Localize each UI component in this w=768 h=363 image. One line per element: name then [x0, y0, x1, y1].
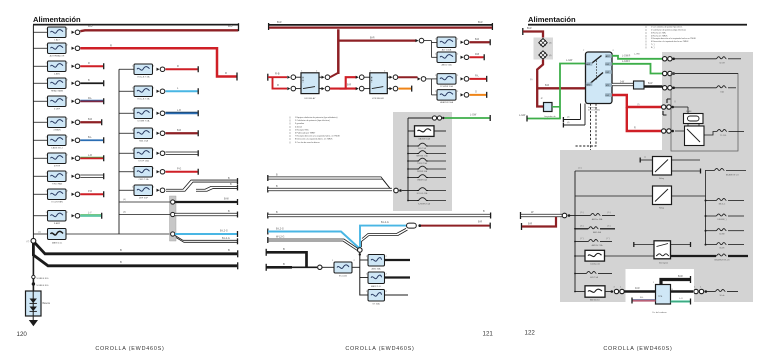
- svg-text:( ): ( ): [289, 136, 291, 138]
- fuse H p121 bottom: [360, 277, 368, 279]
- wire blue up to oval connector: [360, 226, 406, 249]
- svg-text:122: 122: [525, 330, 536, 337]
- panel row green out: [408, 117, 432, 119]
- svg-text:AM Washer: AM Washer: [590, 299, 600, 302]
- fuse F2-7 p120 column2: [119, 189, 134, 191]
- connector p120 row6: [72, 121, 75, 124]
- canister component p122: [656, 285, 671, 305]
- svg-text:(7): (7): [637, 104, 640, 106]
- connector A out: [461, 41, 464, 44]
- svg-text:B-R: B-R: [475, 38, 479, 41]
- bus black top p121: [269, 24, 492, 26]
- fuse F2-3 p120 column2: [119, 112, 134, 114]
- svg-text:( ): ( ): [289, 117, 291, 119]
- svg-text:4 diesel: 4 diesel: [295, 126, 302, 128]
- connector p120 row11: [72, 214, 75, 217]
- wire R-B feed relay1: [267, 74, 269, 81]
- wire stub L-R row8: [80, 157, 103, 159]
- fuse link right col y200.5: [705, 200, 707, 202]
- svg-text:Batería: Batería: [43, 302, 51, 305]
- svg-text:Relay: Relay: [659, 178, 664, 180]
- connector p120 col2 row7: [157, 189, 160, 192]
- fuse F2-5 p120 column2: [119, 152, 134, 154]
- connector p120 col2 row1: [157, 68, 160, 71]
- title underline p122: [528, 24, 747, 26]
- junction block J1 p120: [170, 196, 177, 241]
- connector red row2: [662, 129, 666, 133]
- wire stub col2 row2: [166, 90, 198, 92]
- svg-text:L-GW: L-GW: [634, 54, 641, 56]
- svg-text:B-R: B-R: [527, 26, 532, 30]
- svg-text:7.5 CIG: 7.5 CIG: [720, 135, 727, 137]
- wire B-R out right: [421, 225, 490, 227]
- wire orange stub relay2: [399, 88, 412, 90]
- svg-text:4 Hecho en TMUK: 4 Hecho en TMUK: [651, 35, 668, 37]
- wire L-GW loop p122: [528, 64, 586, 119]
- svg-text:Relay: Relay: [659, 208, 664, 210]
- svg-text:ABS1 50A: ABS1 50A: [441, 64, 452, 67]
- svg-text:9 Con luz de marcha diurna: 9 Con luz de marcha diurna: [295, 142, 320, 144]
- svg-text:DEF I/UP: DEF I/UP: [139, 198, 149, 200]
- connector p120 col2 row2: [157, 90, 160, 93]
- wire diag relay1 to B-R: [330, 73, 338, 77]
- svg-text:R: R: [110, 43, 112, 47]
- svg-text:( ): ( ): [645, 44, 647, 46]
- svg-text:B-R: B-R: [370, 35, 375, 39]
- fuse F1-6 p120 left column: [33, 121, 47, 123]
- svg-text:AM2 30A: AM2 30A: [372, 267, 382, 270]
- svg-text:COROLLA (EWD460S): COROLLA (EWD460S): [345, 346, 414, 352]
- connector p120 row8: [72, 157, 75, 160]
- wire stub B: [470, 56, 484, 58]
- fuse I p121 bottom: [360, 294, 368, 296]
- fuse link row B p122: [574, 228, 576, 230]
- wire stub col2 row3: [166, 112, 198, 114]
- svg-text:L-O: L-O: [679, 298, 683, 300]
- svg-text:COROLLA (EWD460S): COROLLA (EWD460S): [603, 346, 672, 352]
- wire B-R vertical drop p121: [337, 29, 340, 74]
- svg-text:L-GW: L-GW: [470, 114, 477, 117]
- svg-text:ALT 100A: ALT 100A: [442, 49, 452, 52]
- svg-text:MAIN 2.0L: MAIN 2.0L: [52, 242, 63, 245]
- svg-text:ECU-B 7.5A: ECU-B 7.5A: [138, 98, 150, 101]
- svg-text:B-L: B-L: [88, 136, 92, 139]
- svg-text:2 Calefactor de potencia (tip: 2 Calefactor de potencia (tipo eléctrico…: [651, 29, 686, 32]
- wire W zigzag from oval: [362, 228, 406, 238]
- svg-text:DOME 7.5A: DOME 7.5A: [138, 120, 150, 123]
- svg-text:1 Con sistema de porton fipo: 1 Con sistema de porton fipo electr.: [651, 26, 683, 29]
- svg-text:ECU-IG 15A: ECU-IG 15A: [417, 192, 428, 195]
- wire stub A: [470, 41, 490, 43]
- svg-text:6 Fabricado por TMMT: 6 Fabricado por TMMT: [295, 133, 316, 135]
- svg-text:(1): (1): [38, 232, 41, 234]
- svg-text:L-R: L-R: [88, 154, 92, 157]
- svg-text:B: B: [283, 262, 285, 266]
- svg-text:7 ( ): 7 ( ): [651, 44, 655, 46]
- svg-text:IGN 7.5A: IGN 7.5A: [590, 276, 599, 279]
- wire red IG out p122: [612, 95, 661, 107]
- svg-text:R: R: [88, 62, 90, 65]
- svg-text:( 4 ): ( 4 ): [578, 168, 582, 170]
- svg-text:R: R: [225, 71, 227, 75]
- svg-text:B8-B/W-R KIT-LG: B8-B/W-R KIT-LG: [715, 260, 731, 262]
- svg-text:P-G: P-G: [177, 168, 181, 171]
- svg-text:( 7 ): ( 7 ): [606, 238, 610, 240]
- svg-text:( ): ( ): [645, 27, 647, 29]
- svg-text:B-W: B-W: [678, 275, 683, 278]
- svg-text:ECU-B 7.5A: ECU-B 7.5A: [138, 76, 150, 79]
- svg-text:(4): (4): [567, 122, 570, 124]
- svg-text:( 5 ): ( 5 ): [580, 212, 584, 214]
- svg-text:AM-Pwr 30A: AM-Pwr 30A: [592, 218, 603, 221]
- svg-text:B-R: B-R: [228, 24, 233, 28]
- connector p120 row10: [72, 193, 75, 196]
- svg-text:( ): ( ): [645, 41, 647, 43]
- wire stub W row9: [80, 175, 103, 177]
- svg-text:7 RDI FAN: 7 RDI FAN: [52, 183, 63, 186]
- svg-text:( 6 ): ( 6 ): [580, 225, 584, 227]
- connector p120 col2 row4: [157, 132, 160, 135]
- svg-text:L-GW: L-GW: [566, 59, 573, 62]
- svg-text:MAIN 2.0L: MAIN 2.0L: [371, 285, 382, 288]
- svg-text:6 HTR: 6 HTR: [54, 166, 61, 168]
- svg-text:5 Excepto dirección a la izqu: 5 Excepto dirección a la izquierda hecho…: [651, 37, 697, 40]
- row2 wire into outline: [675, 73, 738, 75]
- panel bottom arc row: [408, 200, 417, 202]
- connector p120 row5: [72, 100, 75, 103]
- vertical junction bus p121 bottom: [359, 252, 361, 296]
- bracket C-D feed: [431, 79, 433, 95]
- wire B thick 2 p121 bottom: [265, 264, 267, 271]
- gray panel p122 upper: [662, 52, 753, 150]
- wire W pair stepped to page edge: [166, 180, 237, 189]
- svg-text:L-GW R: L-GW R: [622, 56, 631, 58]
- svg-text:9 AM2: 9 AM2: [54, 222, 61, 225]
- wire B-R into p122 panel: [521, 223, 523, 230]
- svg-text:B-R: B-R: [478, 20, 483, 24]
- svg-text:ST 30A: ST 30A: [372, 302, 380, 305]
- wavy box row F p122: [574, 291, 576, 293]
- fuse F1-10 p120 left column: [33, 193, 47, 195]
- wire bus to relay C row: [575, 170, 653, 172]
- wire B-L2-G out (blue): [175, 233, 237, 235]
- svg-text:P-B: P-B: [88, 190, 92, 193]
- svg-text:7 Excepto dirección a la izqu: 7 Excepto dirección a la izquierda fabri…: [295, 135, 341, 138]
- wire B-W up from canister: [661, 280, 690, 285]
- wire W long bus p121 bottom: [267, 213, 269, 219]
- svg-text:B-R: B-R: [88, 24, 93, 28]
- svg-text:( ): ( ): [289, 123, 291, 125]
- svg-text:B: B: [283, 247, 285, 251]
- fuse F1-7 p120 left column: [33, 139, 47, 141]
- svg-text:( 6 ): ( 6 ): [607, 225, 611, 227]
- wire battery vertical: [32, 243, 34, 291]
- fuse link row E p122: [574, 273, 576, 275]
- svg-text:B-R: B-R: [277, 20, 282, 24]
- svg-text:( ): ( ): [645, 30, 647, 32]
- svg-text:TAIL 15A: TAIL 15A: [139, 140, 148, 143]
- fuse link row C p122: [574, 241, 576, 243]
- right fuse column bus p122: [705, 171, 707, 245]
- svg-text:8 Dirección a la izquierda fa: 8 Dirección a la izquierda fabric. en TM…: [295, 139, 333, 141]
- wire L-GW out2: [612, 64, 663, 74]
- svg-text:5 Excepto TMC: 5 Excepto TMC: [295, 128, 309, 131]
- svg-text:WASH 15A: WASH 15A: [417, 179, 427, 182]
- svg-text:METER 7.5A: METER 7.5A: [416, 155, 428, 158]
- svg-text:Calefacción: Calefacción: [590, 263, 600, 265]
- DIMM relay p122: [674, 106, 688, 108]
- relay D p122 (above canister): [654, 241, 671, 259]
- fuse G p121 bottom: [360, 259, 368, 261]
- internal bus p122 lower: [574, 171, 576, 292]
- wire B thick 1 p121 bottom: [265, 249, 267, 256]
- wire R feed relay1 low: [273, 77, 288, 88]
- svg-text:OBD 7.5A: OBD 7.5A: [139, 178, 149, 181]
- panel row external feed: [394, 188, 399, 193]
- fuse F p121 bottom: [334, 262, 352, 273]
- junction node battery top: [31, 238, 36, 243]
- connector p120 row1: [72, 31, 75, 34]
- connector C out: [461, 77, 464, 80]
- svg-text:B: B: [120, 260, 122, 264]
- connector D out: [461, 93, 464, 96]
- white inset p122 bottom: [626, 269, 695, 310]
- svg-text:1 ALT: 1 ALT: [54, 39, 60, 42]
- connector p120 row4: [72, 82, 75, 85]
- svg-text:1 Equipo calefactor de poten: 1 Equipo calefactor de potencia (tipo al…: [295, 116, 338, 119]
- junction circles: [171, 200, 175, 204]
- gray panel p122 lower: [560, 150, 753, 302]
- ignition switch p122: [586, 52, 613, 104]
- connector box small: [634, 81, 645, 89]
- svg-text:121: 121: [483, 331, 494, 338]
- svg-text:3 Hecho en TMC: 3 Hecho en TMC: [651, 32, 667, 34]
- svg-text:(4): (4): [549, 55, 552, 57]
- wire W into p122 panel: [520, 212, 522, 219]
- svg-text:B-L2-G: B-L2-G: [381, 221, 389, 224]
- svg-text:( ): ( ): [645, 32, 647, 34]
- svg-text:( 7 ): ( 7 ): [580, 238, 584, 240]
- connector fuse A feed: [416, 39, 419, 42]
- title underline p120: [33, 24, 239, 26]
- svg-text:IGN 7.5A: IGN 7.5A: [418, 147, 427, 150]
- wire MAIN fuse to junction strip: [66, 233, 170, 235]
- connector p120 col2 row6: [157, 170, 160, 173]
- gray panel p121 (J/B): [393, 112, 452, 211]
- wire W from left to junction: [267, 237, 269, 243]
- svg-text:Fu. del carbono: Fu. del carbono: [653, 312, 668, 314]
- svg-text:( ): ( ): [645, 47, 647, 49]
- svg-text:POWER 30A: POWER 30A: [440, 85, 453, 88]
- wire stub D: [470, 94, 487, 96]
- wire stub row6: [80, 121, 101, 123]
- outline relay box p122: [671, 74, 738, 152]
- wire red IG2 out p122: [627, 107, 661, 131]
- wire W pair into panel upper: [267, 175, 269, 181]
- fuse F2-6 p120 column2: [119, 171, 134, 173]
- svg-text:( ): ( ): [289, 120, 291, 122]
- svg-text:R-L: R-L: [88, 97, 93, 100]
- svg-text:( ): ( ): [289, 126, 291, 128]
- connector relay2 in bottom: [356, 87, 359, 90]
- junction node p121 bottom: [358, 248, 363, 253]
- svg-text:HTR RELAY: HTR RELAY: [372, 97, 385, 100]
- bus B-R top p121: [269, 27, 492, 29]
- wire canister out right: [671, 290, 694, 292]
- svg-text:HEAD MAIN: HEAD MAIN: [51, 90, 64, 93]
- wire L-GW out1: [612, 56, 663, 59]
- wire stub row4: [80, 82, 103, 84]
- svg-text:B-L2-G: B-L2-G: [276, 228, 284, 231]
- wire B-R top left p122: [522, 28, 524, 35]
- wire feed y214: [119, 214, 170, 216]
- svg-text:WIPER 20A: WIPER 20A: [417, 170, 428, 173]
- bus B-R top p120: [80, 29, 238, 32]
- wire out I: [385, 294, 409, 296]
- svg-text:( ): ( ): [289, 133, 291, 135]
- svg-text:HEATER 50A: HEATER 50A: [440, 101, 454, 104]
- wire ST drop 2: [584, 104, 586, 126]
- fuse F1-9 p120 left column: [33, 175, 47, 177]
- wire red elbow relay1-relay2: [330, 77, 356, 88]
- svg-text:( 5 ): ( 5 ): [607, 212, 611, 214]
- svg-text:( ): ( ): [674, 101, 676, 103]
- fuse link row A p122: [575, 215, 590, 217]
- fuse MAIN p120 bottom (black wave): [33, 233, 47, 235]
- connector relay2 in top: [356, 76, 359, 79]
- panel internal bus: [407, 118, 409, 201]
- connector fuse C feed: [418, 77, 421, 80]
- wire stub col2 row6: [166, 171, 198, 173]
- fuse F2-4 p120 column2: [119, 132, 134, 134]
- wire B-L2-G blue from left: [267, 229, 269, 235]
- bus B main 1: [35, 243, 238, 254]
- fuse link right col y244.6: [705, 244, 707, 246]
- panel fuse arc row y153.5: [408, 153, 417, 155]
- fuse link right col y216.0: [705, 215, 707, 217]
- svg-text:B-R: B-R: [478, 221, 482, 224]
- fuse D p121: [437, 90, 456, 101]
- svg-text:(3): (3): [549, 43, 552, 45]
- svg-text:(4): (4): [123, 199, 126, 201]
- svg-text:B-GW: B-GW: [719, 234, 724, 236]
- wire feed y202: [119, 201, 170, 203]
- connector relay1 in bottom: [287, 87, 290, 90]
- wire stub col2 row4: [166, 132, 198, 134]
- svg-text:L-R: L-R: [177, 109, 181, 112]
- fuse F2-1 p120 column2: [119, 68, 134, 70]
- fuse F1-8 p120 left column: [33, 157, 47, 159]
- svg-text:B-L2-G: B-L2-G: [222, 237, 230, 240]
- svg-text:ECU-B2: ECU-B2: [339, 276, 348, 278]
- svg-text:TURN 7.5A: TURN 7.5A: [417, 162, 427, 165]
- relay D2 p122: [653, 186, 672, 205]
- svg-text:3 DEF: 3 DEF: [54, 109, 61, 111]
- svg-text:B8-G-C: B8-G-C: [719, 204, 726, 206]
- svg-text:(4): (4): [123, 212, 126, 214]
- svg-text:8 ( ): 8 ( ): [651, 47, 655, 49]
- fuse link right col y230.7: [705, 230, 707, 232]
- wire B-R relay2 to fuse C: [398, 76, 418, 78]
- fuse F2-2 p120 column2: [119, 90, 134, 92]
- connector relay2 out bottom: [387, 88, 389, 90]
- svg-text:N BBB E B/G: N BBB E B/G: [37, 278, 49, 280]
- ground: [29, 320, 38, 326]
- fuse F1-2 p120 left column: [33, 47, 47, 49]
- svg-text:de encendido: de encendido: [588, 110, 601, 112]
- svg-text:R-L: R-L: [475, 75, 480, 78]
- svg-text:L-Y: L-Y: [88, 212, 92, 215]
- svg-text:(5): (5): [530, 79, 533, 81]
- connector gray box p122: [534, 38, 554, 60]
- svg-text:2 Calefactor de potencia (tip: 2 Calefactor de potencia (tipo eléctrico…: [295, 119, 330, 122]
- svg-text:ACC: ACC: [606, 55, 611, 58]
- svg-text:4 MAIN: 4 MAIN: [53, 129, 61, 132]
- wire B-W row p122: [612, 84, 634, 86]
- wire W pair into panel lower: [267, 187, 269, 193]
- connector p122 panel feed: [562, 213, 567, 218]
- bus B main 2: [33, 243, 237, 266]
- svg-text:AM2-St 7.5A: AM2-St 7.5A: [592, 244, 603, 247]
- svg-text:AM1 40A: AM1 40A: [593, 231, 602, 234]
- wire B-R into ignition AM2: [537, 87, 585, 89]
- fuse link row 170: [705, 170, 714, 172]
- fuse F1-4 p120 left column: [33, 82, 47, 84]
- svg-text:( ): ( ): [645, 38, 647, 40]
- oval connector p121: [407, 223, 417, 228]
- svg-text:R: R: [277, 83, 279, 87]
- svg-text:B-R: B-R: [347, 84, 351, 87]
- svg-text:N BBB E B/G: N BBB E B/G: [37, 285, 49, 287]
- svg-text:DIMM: DIMM: [686, 111, 692, 113]
- svg-text:(4): (4): [567, 117, 570, 119]
- svg-text:D8-B/W ( ): D8-B/W ( ): [718, 219, 727, 221]
- svg-text:( ): ( ): [644, 157, 646, 159]
- panel fuse arc row y161: [408, 160, 417, 162]
- svg-text:5 ABS NO.2: 5 ABS NO.2: [51, 147, 64, 150]
- vertical feed bus p120 col2: [118, 69, 120, 234]
- fuse B p121: [437, 52, 456, 63]
- relay contact box p122: [685, 126, 705, 146]
- connector B out: [461, 56, 464, 59]
- svg-text:R-B: R-B: [275, 72, 280, 76]
- svg-text:8 CDS FAN: 8 CDS FAN: [51, 201, 63, 204]
- svg-text:EFI RELAY: EFI RELAY: [304, 97, 316, 100]
- wire out H: [385, 276, 411, 278]
- svg-text:B-L2-G: B-L2-G: [220, 230, 228, 233]
- wire to canister: [605, 291, 612, 293]
- splice points: [32, 275, 35, 278]
- svg-text:Alimentación: Alimentación: [528, 15, 576, 24]
- relay R2 p121: [370, 73, 388, 94]
- connector relay1 out bottom: [319, 88, 322, 90]
- svg-text:120: 120: [17, 331, 28, 338]
- wire pink into canister: [633, 299, 656, 301]
- connector relay2 out top: [387, 76, 389, 78]
- diamond splice 2: [539, 51, 547, 59]
- wire B-W thick into canister: [624, 290, 656, 293]
- svg-text:( ): ( ): [289, 129, 291, 131]
- svg-text:Interruptor: Interruptor: [659, 262, 669, 265]
- svg-text:B8-B/R KIT LG: B8-B/R KIT LG: [726, 175, 739, 177]
- fuse F1-3 p120 left column: [33, 65, 47, 67]
- wire stub row5: [80, 100, 103, 102]
- battery: [26, 291, 42, 316]
- fuse C p121: [437, 74, 456, 85]
- panel fuse arc row y169: [408, 168, 417, 170]
- wire B-R to fuse A: [338, 39, 416, 41]
- relay C p122: [653, 157, 672, 176]
